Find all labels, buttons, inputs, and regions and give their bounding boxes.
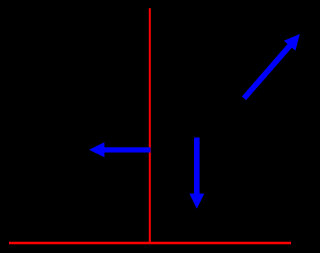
diagonal up-right blue vector arrow (244, 34, 300, 98)
y-axis (red vertical line) (149, 8, 151, 243)
down-pointing blue vector arrow (189, 138, 204, 209)
left-pointing blue vector arrow (89, 142, 151, 157)
x-axis (red horizontal line) (9, 242, 291, 245)
